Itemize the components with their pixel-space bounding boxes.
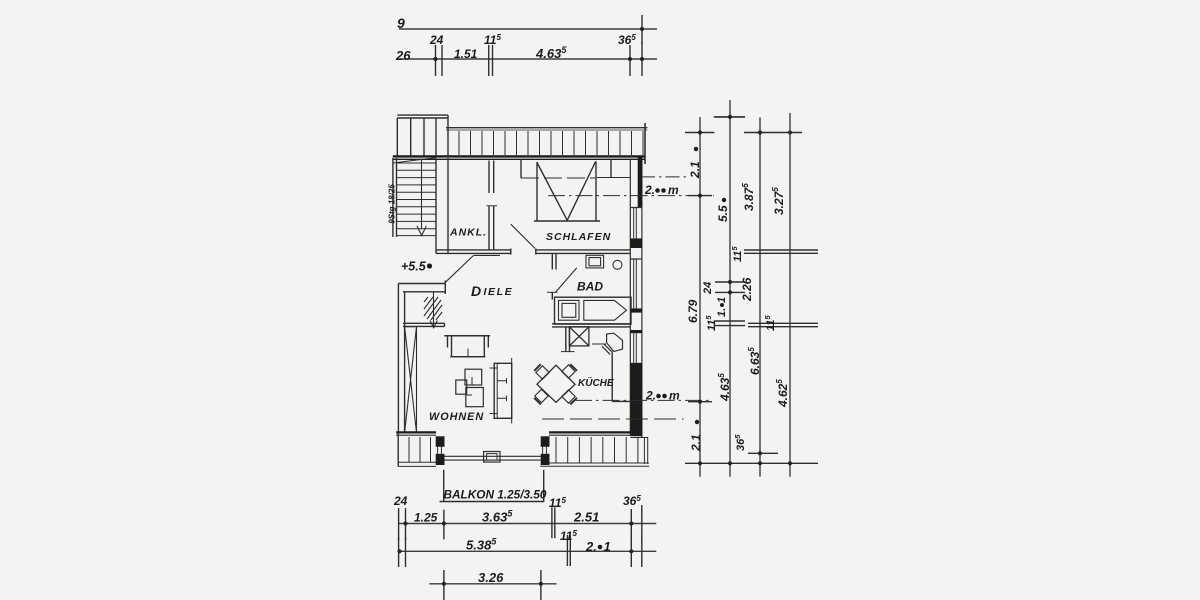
bottom dim line C <box>429 583 556 585</box>
balcony outline below <box>443 470 445 502</box>
bookshelf <box>494 363 512 418</box>
svg-text:4.625: 4.625 <box>775 379 790 408</box>
svg-text:5.5: 5.5 <box>716 205 730 222</box>
svg-text:9: 9 <box>397 15 405 31</box>
chair NW <box>536 366 549 379</box>
shower square <box>559 300 580 320</box>
svg-text:m: m <box>669 389 680 403</box>
svg-text:1.51: 1.51 <box>454 47 478 61</box>
top dimension line 9 <box>399 28 657 30</box>
window 2 <box>630 259 642 309</box>
staircase left wall <box>392 158 394 237</box>
svg-text:ANKL.: ANKL. <box>449 227 487 239</box>
svg-text:BAD: BAD <box>577 280 603 294</box>
svg-text:+5.5: +5.5 <box>401 260 427 274</box>
bathtub outer <box>555 297 632 324</box>
svg-text:365: 365 <box>733 434 747 451</box>
svg-text:SCHLAFEN: SCHLAFEN <box>546 231 611 243</box>
svg-text:WOHNEN: WOHNEN <box>429 411 484 423</box>
svg-text:115: 115 <box>730 246 744 262</box>
bottom wall right segment <box>549 431 642 433</box>
tub <box>584 300 627 320</box>
left outer wall lower <box>397 284 399 435</box>
svg-text:1.25: 1.25 <box>414 511 438 525</box>
svg-text:3.635: 3.635 <box>482 509 513 525</box>
SCHLAFEN bottom wall right segment <box>536 249 631 251</box>
svg-text:1.: 1. <box>716 308 728 317</box>
black block <box>630 239 642 248</box>
SCHLAFEN door leaf <box>511 224 535 248</box>
balcony door black post left <box>436 436 445 447</box>
armchair group <box>465 369 482 385</box>
dash-dot line lower 2.00m <box>575 399 712 401</box>
BAD door leaf <box>555 268 576 293</box>
svg-text:2.1: 2.1 <box>689 434 703 452</box>
staircase winder diagonal <box>393 158 436 163</box>
window 1 <box>630 208 642 240</box>
svg-text:24: 24 <box>429 33 444 47</box>
svg-text:24: 24 <box>393 494 408 508</box>
chair SE <box>562 390 575 403</box>
svg-text:24: 24 <box>702 282 714 295</box>
svg-text:D: D <box>471 283 481 299</box>
svg-text:2.: 2. <box>644 183 655 197</box>
svg-text:1: 1 <box>604 539 611 554</box>
terrace band bottom left <box>397 432 399 466</box>
long dashed terrace line <box>542 418 684 420</box>
svg-text:2.26: 2.26 <box>740 277 754 302</box>
svg-text:115: 115 <box>549 496 566 510</box>
svg-text:KÜCHE: KÜCHE <box>578 376 614 389</box>
bottom wall left segment <box>396 431 436 433</box>
svg-text:2.1: 2.1 <box>688 161 702 179</box>
gallery hatched box top-left <box>397 114 448 116</box>
wall black bar bottom <box>630 363 642 436</box>
radiator zigzag <box>424 293 442 328</box>
terrace band bottom right <box>556 437 638 463</box>
SCHLAFEN closet niche <box>520 160 522 179</box>
right dims bottom line <box>685 462 818 464</box>
sofa <box>444 335 490 337</box>
ANKL door leaf <box>446 256 474 283</box>
kitchen counter <box>611 352 613 401</box>
main top wall (thick) <box>393 155 645 157</box>
chimney X-brace <box>405 327 417 433</box>
svg-text:365: 365 <box>618 33 636 47</box>
chair SW <box>535 389 548 402</box>
svg-text:BALKON 1.25/3.50: BALKON 1.25/3.50 <box>444 488 547 502</box>
dining table <box>537 365 575 402</box>
svg-text:3.275: 3.275 <box>771 187 786 215</box>
ANKL door sill <box>474 254 501 256</box>
gallery hatched band top <box>446 127 647 129</box>
svg-text:IELE: IELE <box>484 286 514 298</box>
svg-text:3.26: 3.26 <box>478 570 504 585</box>
sideboard DIELE <box>403 322 445 324</box>
staircase down arrow <box>421 160 423 229</box>
svg-text:26: 26 <box>395 48 411 63</box>
bottom dim line B <box>399 550 657 552</box>
dash-dot line upper 2.00m <box>548 195 714 197</box>
svg-text:m: m <box>668 183 679 197</box>
right dim column D <box>789 113 791 477</box>
kitchen corner unit <box>607 333 623 351</box>
band right end post <box>644 123 646 164</box>
ANKL right wall / door frame <box>488 161 490 194</box>
svg-text:2.51: 2.51 <box>573 510 599 525</box>
svg-text:5.385: 5.385 <box>466 537 497 553</box>
right dim column A <box>699 117 701 477</box>
ANKL bottom wall <box>436 249 511 251</box>
svg-text:2.: 2. <box>585 539 597 554</box>
svg-text:6.79: 6.79 <box>686 299 700 323</box>
svg-text:115: 115 <box>484 33 501 47</box>
washbasin <box>586 255 604 268</box>
balcony door sill <box>445 455 544 457</box>
fridge box with X <box>569 327 589 346</box>
bottom dim line A <box>399 523 657 525</box>
svg-text:115: 115 <box>560 529 577 543</box>
balcony door mullion <box>484 452 500 463</box>
svg-text:9Stg 18/25: 9Stg 18/25 <box>388 184 397 224</box>
ticks line 26 <box>435 45 437 76</box>
right dim column B <box>729 100 731 477</box>
wall BAD/KUECHE <box>552 323 630 325</box>
tick on line 9 <box>641 15 643 44</box>
staircase steps <box>397 163 437 236</box>
right outer wall <box>629 159 631 436</box>
right dim column C <box>759 118 761 477</box>
DIELE top-left wall <box>398 283 445 285</box>
svg-text:3.875: 3.875 <box>741 183 756 211</box>
chair NE <box>562 365 575 378</box>
wall black bar top <box>638 157 642 208</box>
window 3 <box>634 333 637 363</box>
top dimension line 26 <box>399 58 657 60</box>
wardrobe box with V <box>536 162 538 221</box>
wall stub DIELE/KUECHE <box>565 327 567 352</box>
wall stairs/ANKL <box>435 158 437 253</box>
svg-text:2.: 2. <box>645 389 656 403</box>
svg-text:1: 1 <box>716 297 728 303</box>
svg-text:115: 115 <box>763 315 777 331</box>
svg-text:365: 365 <box>623 494 641 508</box>
toilet <box>613 260 622 269</box>
BAD left wall <box>551 253 553 269</box>
balcony door black post right <box>541 436 550 447</box>
